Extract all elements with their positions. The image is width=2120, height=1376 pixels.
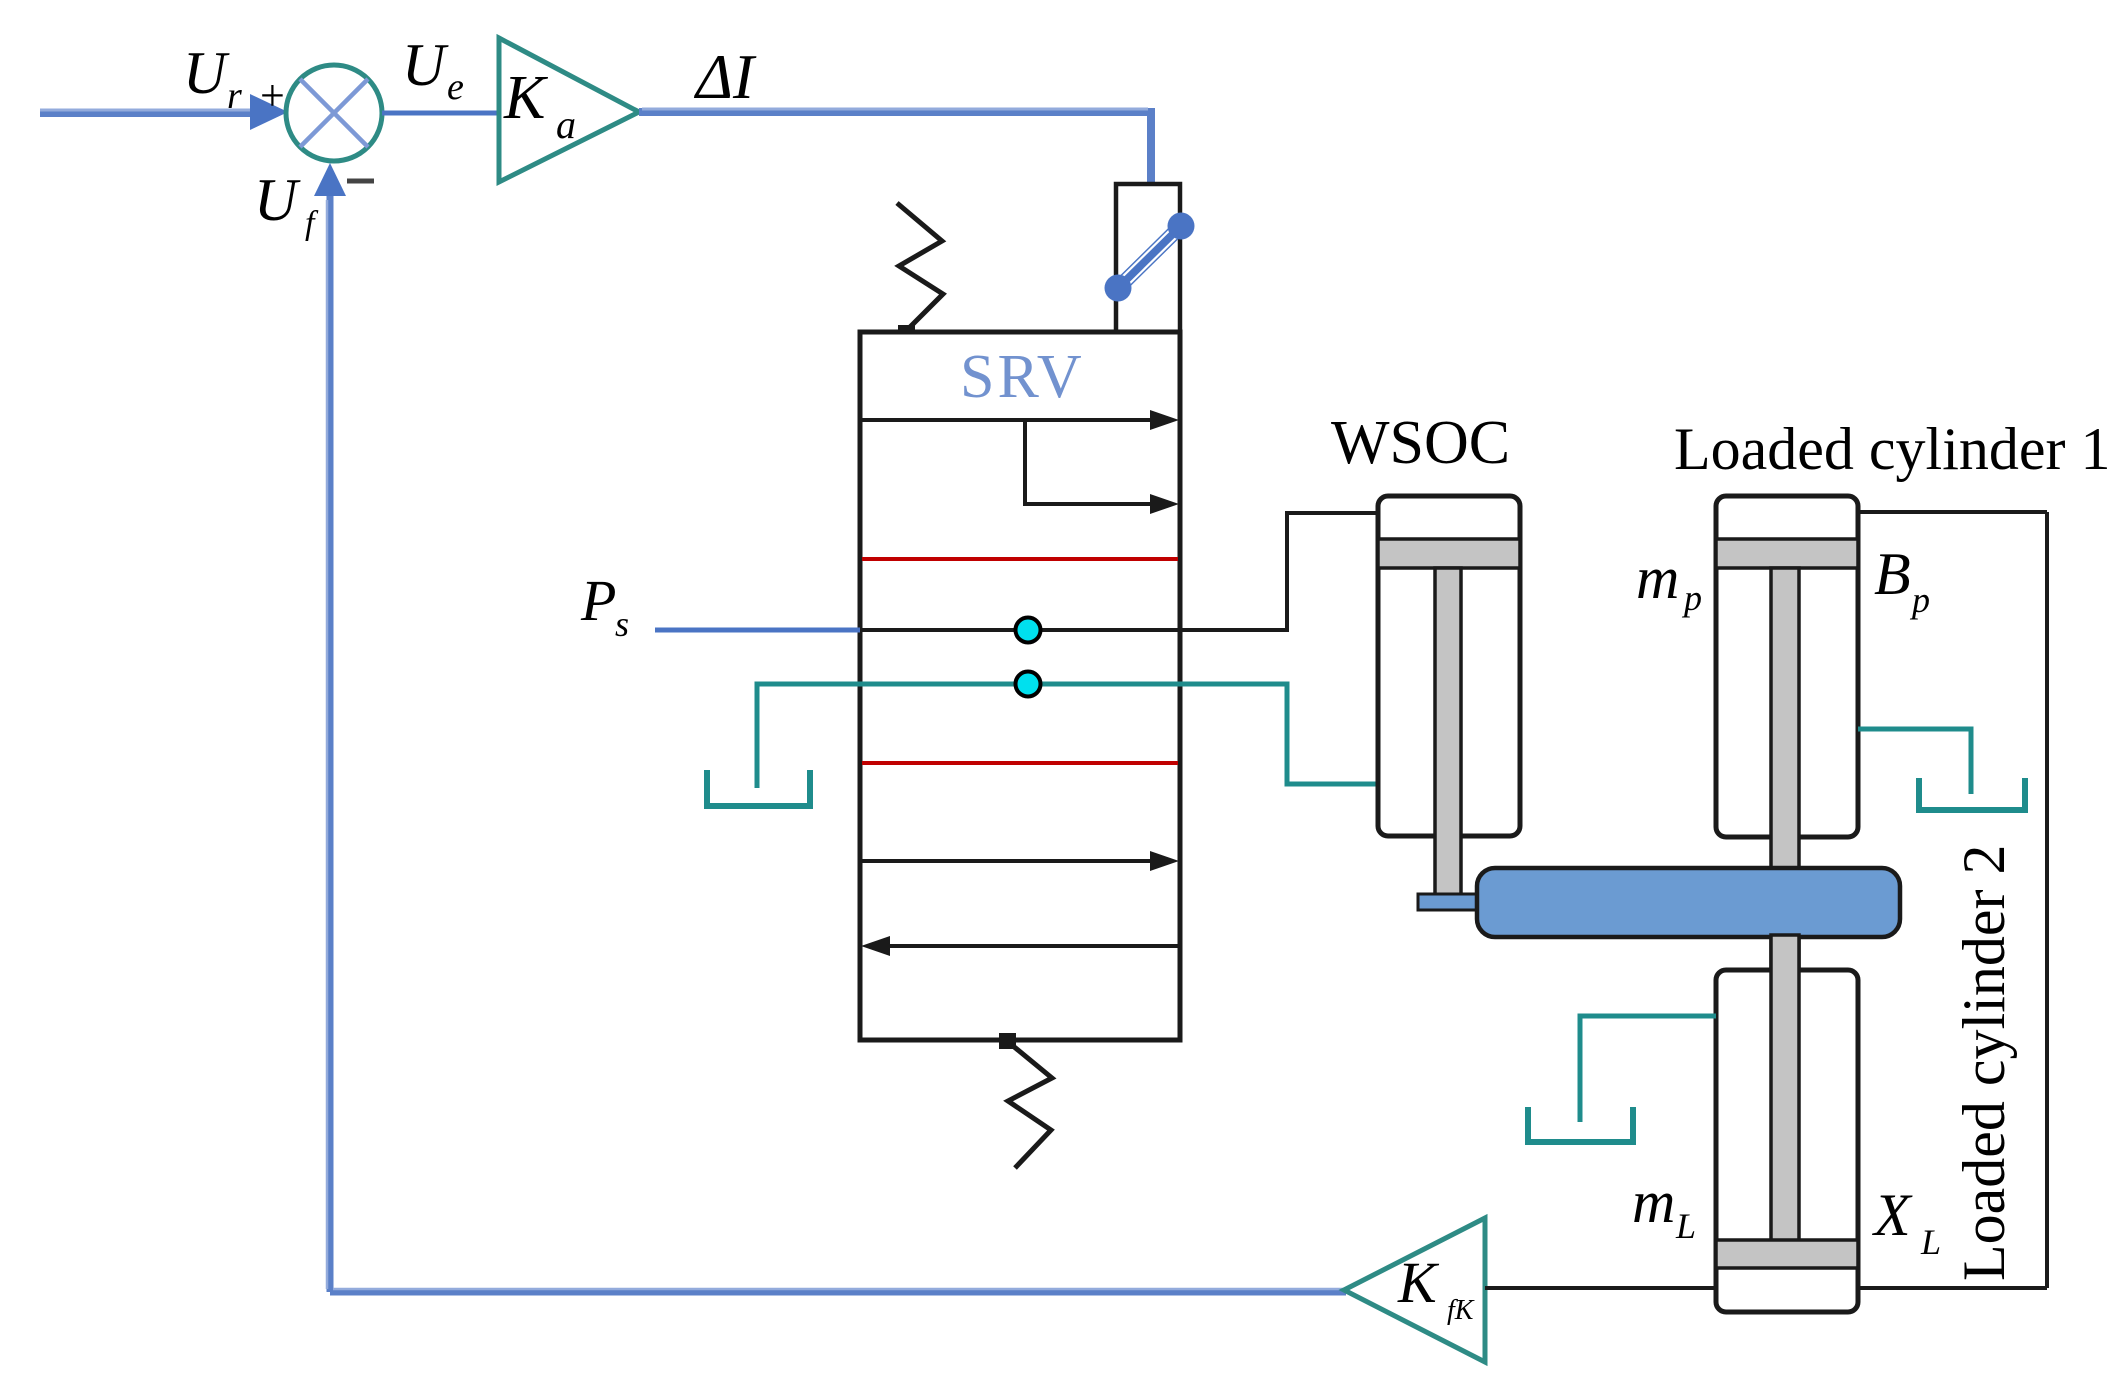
svg-text:L: L: [1920, 1222, 1941, 1262]
red line 1: [862, 557, 1178, 561]
svg-text:B: B: [1874, 541, 1911, 607]
svg-text:SRV: SRV: [960, 343, 1085, 411]
svg-text:Loaded cylinder 1: Loaded cylinder 1: [1674, 416, 2111, 482]
tank 3: [1528, 1107, 1633, 1142]
wire: port A (black): [860, 628, 1289, 632]
svg-text:s: s: [615, 604, 629, 644]
wire: feedback vertical: [327, 190, 334, 1292]
svg-text:r: r: [227, 75, 242, 117]
svg-text:a: a: [556, 102, 576, 147]
rod lower part: [1771, 935, 1799, 1243]
partition line with arrow: [860, 418, 1160, 422]
svg-text:K: K: [1397, 1250, 1440, 1315]
svg-text:ΔI: ΔI: [693, 42, 757, 112]
tank 2: [1919, 778, 2025, 810]
node: port B: [1016, 672, 1041, 697]
svg-text:p: p: [1681, 578, 1702, 618]
svg-text:U: U: [402, 32, 449, 98]
loaded cylinder rod: [1771, 568, 1799, 1244]
blue tab: [1418, 894, 1478, 910]
svg-text:L: L: [1675, 1206, 1696, 1246]
svg-text:e: e: [447, 66, 464, 108]
WSOC piston rod: [1435, 568, 1461, 904]
wire: teal cyl2: [1580, 1016, 1716, 1122]
node: port A: [1016, 618, 1041, 643]
wire: X_L to K_fK: [1485, 1286, 1716, 1290]
wire: loop vertical: [2045, 512, 2049, 1288]
wire: loop bottom right: [1857, 1286, 2047, 1290]
wire: input U_r: [40, 109, 254, 117]
tank 1: [707, 770, 810, 806]
svg-text:U: U: [254, 167, 301, 233]
wire: teal cyl1: [1858, 729, 1971, 794]
wire: U_e: [382, 111, 499, 116]
amplifier K_fK: [1344, 1218, 1485, 1362]
wire: riser to WSOC top port: [1287, 513, 1378, 630]
svg-text:fK: fK: [1447, 1295, 1475, 1326]
amplifier K_a: [499, 38, 639, 182]
loaded cylinder 2 body: [1716, 970, 1858, 1312]
svg-text:WSOC: WSOC: [1331, 409, 1510, 477]
internal wire with arrow: [1025, 420, 1152, 504]
svg-text:U: U: [183, 40, 230, 106]
wire: port B (teal): [757, 684, 1378, 788]
svg-text:Loaded cylinder 2: Loaded cylinder 2: [1951, 845, 2017, 1282]
lever: [1118, 226, 1181, 288]
arrow line left: [885, 944, 1178, 948]
label minus sign: [347, 179, 374, 184]
svg-text:+: +: [260, 71, 285, 120]
loaded cylinder 1 body: [1716, 496, 1858, 837]
svg-text:m: m: [1636, 545, 1679, 611]
summing junction: [286, 65, 382, 161]
wire: P_s supply (blue): [655, 628, 860, 633]
svg-text:K: K: [503, 64, 549, 132]
svg-text:P: P: [580, 568, 616, 633]
wire: loop top: [1857, 510, 2047, 514]
svg-text:m: m: [1632, 1169, 1675, 1235]
spring top: [897, 203, 943, 331]
wire: delta-I to solenoid: [639, 112, 1151, 186]
svg-text:X: X: [1872, 1182, 1913, 1248]
solenoid box: [1116, 184, 1180, 332]
blue bar: [1477, 868, 1900, 937]
red line 2: [862, 761, 1178, 765]
spring bottom: [999, 1033, 1016, 1049]
wire: feedback horizontal: [330, 1289, 1346, 1296]
WSOC cylinder: [1378, 496, 1520, 836]
valve body SRV: [860, 332, 1180, 1040]
piston cyl2: [1716, 1240, 1858, 1268]
svg-text:p: p: [1909, 580, 1930, 620]
arrow line right: [862, 859, 1153, 863]
